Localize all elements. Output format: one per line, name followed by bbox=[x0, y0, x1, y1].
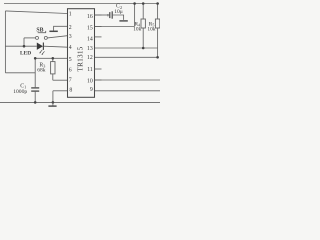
svg-text:15: 15 bbox=[87, 26, 93, 32]
capacitor C2 polarity tick bbox=[107, 14, 109, 16]
wire left rail bbox=[4, 11, 6, 73]
wire SB to pin 3 bbox=[47, 36, 67, 38]
wire R4 leads bbox=[142, 4, 144, 49]
capacitor C1 plates bbox=[31, 88, 39, 91]
svg-text:7: 7 bbox=[69, 78, 72, 84]
wire SB branch vertical bbox=[23, 38, 25, 46]
LED cathode bar bbox=[42, 43, 44, 50]
IC U1 TR1315 body bbox=[68, 9, 95, 98]
junction dots bbox=[23, 2, 159, 104]
wire pin 13 bbox=[95, 47, 158, 49]
svg-text:12: 12 bbox=[87, 55, 93, 61]
svg-text:SB: SB bbox=[36, 28, 43, 34]
ground symbol below bottom rail bbox=[52, 102, 54, 105]
wire pin 10 bbox=[95, 79, 161, 81]
pin 14 stub bbox=[95, 36, 102, 38]
pushbutton SB contact circles bbox=[36, 36, 48, 39]
pushbutton SB actuator bar bbox=[38, 31, 46, 33]
svg-text:1: 1 bbox=[69, 12, 72, 18]
wire pin 1 bbox=[5, 11, 67, 14]
wire C2 to ground bbox=[113, 15, 124, 20]
svg-text:1000p: 1000p bbox=[13, 89, 27, 95]
node SB branch / LED wire bbox=[23, 45, 26, 48]
wire pin 5 bbox=[35, 57, 67, 59]
svg-text:3: 3 bbox=[69, 34, 72, 40]
wire pin 6 / C1 branch bbox=[5, 72, 35, 74]
pin numbers right bbox=[87, 14, 93, 93]
IC right pin stubs bbox=[95, 15, 102, 80]
wire C1 vertical bbox=[34, 58, 36, 102]
wire LED anode side bbox=[5, 45, 36, 47]
svg-text:4: 4 bbox=[69, 45, 72, 51]
LED arrows bbox=[39, 50, 44, 55]
capacitor C2 plates bbox=[110, 11, 112, 18]
resistor R5 body bbox=[155, 19, 159, 28]
node R5 / pin12 wire bbox=[156, 56, 159, 59]
wire pin 8 to bottom rail bbox=[52, 91, 54, 103]
node top rail / pin15 bbox=[133, 2, 136, 5]
wire pin 12 bbox=[95, 56, 158, 58]
node top rail / R5 bbox=[156, 2, 159, 5]
svg-text:10μ: 10μ bbox=[114, 9, 123, 15]
pin 10 stub bbox=[95, 79, 102, 81]
LED diode triangle bbox=[37, 43, 43, 50]
wire pin 2 to ground bbox=[54, 26, 68, 30]
svg-text:LED: LED bbox=[20, 51, 31, 57]
node pin8 / bottom rail bbox=[52, 101, 55, 104]
svg-text:6: 6 bbox=[69, 68, 72, 74]
svg-text:9: 9 bbox=[90, 87, 93, 93]
node R4 / pin13 wire bbox=[142, 47, 145, 50]
wire pin 15 to top rail bbox=[134, 4, 136, 27]
svg-text:11: 11 bbox=[87, 67, 93, 73]
svg-text:8: 8 bbox=[69, 88, 72, 94]
wire R3 leads bbox=[52, 58, 54, 80]
wire top supply rail bbox=[4, 3, 159, 5]
wire R5 leads bbox=[157, 4, 159, 58]
node R3 / pin5 wire bbox=[52, 57, 55, 60]
svg-text:68k: 68k bbox=[37, 68, 46, 74]
wire pin 8 bbox=[53, 90, 68, 92]
svg-text:16: 16 bbox=[87, 14, 93, 20]
pin numbers left bbox=[69, 12, 73, 94]
node C1 / pin5 wire bbox=[34, 57, 37, 60]
resistor R4 body bbox=[141, 19, 145, 28]
wire bottom rail bbox=[0, 101, 160, 103]
svg-text:5: 5 bbox=[69, 57, 72, 63]
wire pin 15 bbox=[95, 26, 135, 28]
ground symbol at pin 2 bbox=[49, 30, 57, 32]
svg-text:14: 14 bbox=[87, 37, 93, 43]
pin 11 stub bbox=[95, 68, 102, 70]
svg-text:10: 10 bbox=[87, 78, 93, 84]
svg-text:13: 13 bbox=[87, 46, 93, 52]
wire pin 9 bbox=[95, 90, 161, 92]
resistor R3 body bbox=[51, 62, 55, 74]
wire SB left bbox=[24, 37, 35, 39]
wire LED cathode to pin 4 bbox=[44, 46, 68, 47]
node top rail / R4 bbox=[142, 2, 145, 5]
svg-text:TR1315: TR1315 bbox=[76, 46, 84, 71]
ground symbol at C2 bbox=[119, 20, 127, 22]
node C1 / bottom rail bbox=[34, 101, 37, 104]
pin 15 stub bbox=[95, 26, 102, 28]
svg-text:10k: 10k bbox=[147, 26, 155, 32]
wire R3 to pin 7 bbox=[53, 79, 68, 81]
svg-text:10k: 10k bbox=[133, 26, 141, 32]
pin 16 stub bbox=[95, 14, 102, 16]
wire pin 16 to C2 bbox=[95, 14, 110, 16]
svg-text:2: 2 bbox=[69, 25, 72, 31]
